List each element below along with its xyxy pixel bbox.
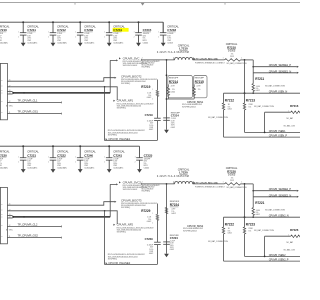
wire sense tap — [244, 59, 246, 94]
capacitor C7220 (clipped at left edge) — [0, 150, 10, 170]
svg-text:C0402: C0402 — [144, 167, 150, 169]
svg-text:xx: xx — [1, 101, 3, 103]
node CPUVR_SNS2 — [183, 224, 204, 232]
svg-text:C7239: C7239 — [84, 28, 93, 32]
inductor left fine print — [141, 62, 154, 68]
svg-text:CPUVR_SVC2: CPUVR_SVC2 — [123, 180, 142, 184]
svg-text:1: 1 — [223, 182, 224, 184]
wire CPUVR_ISEN_N — [224, 90, 301, 94]
svg-text:NO_BAT_CONNECTION: NO_BAT_CONNECTION — [254, 229, 275, 232]
capacitor C7241 — [104, 145, 125, 173]
wire CPUVR_SENSE2_P — [252, 184, 298, 197]
resistor R7216 (right edge, clipped) — [265, 104, 302, 133]
svg-text:NO_BAT: NO_BAT — [286, 241, 294, 244]
svg-text:SVCFREQ-SD04: SVCFREQ-SD04 — [183, 230, 197, 232]
resistor R7229 — [141, 204, 158, 225]
svg-text:C7222: C7222 — [57, 153, 66, 157]
svg-text:0402: 0402 — [256, 214, 260, 216]
svg-text:SVCFREQ: SVCFREQ — [117, 232, 127, 234]
svg-text:CPUVR_NP1: CPUVR_NP1 — [117, 99, 134, 103]
capacitor C7231 — [104, 21, 128, 46]
node CPUVR_BOOT3 — [121, 198, 158, 209]
ground — [164, 130, 169, 134]
svg-text:2512: 2512 — [230, 180, 234, 182]
node CPUVR_SVC2 — [119, 180, 160, 191]
svg-text:SVCFREQ: SVCFREQ — [141, 191, 150, 193]
svg-text:2512: 2512 — [230, 56, 234, 58]
svg-text:xx: xx — [1, 209, 3, 211]
svg-text:2: 2 — [152, 223, 153, 225]
svg-text:1: 1 — [134, 31, 135, 33]
svg-text:C7218: C7218 — [167, 28, 176, 32]
svg-text:xx: xx — [1, 236, 3, 238]
svg-text:2: 2 — [241, 182, 242, 184]
svg-text:2: 2 — [104, 36, 105, 38]
svg-text:NO_BAT: NO_BAT — [286, 117, 294, 120]
svg-text:NO_BAT_CONNECTION: NO_BAT_CONNECTION — [227, 62, 248, 65]
svg-text:0402: 0402 — [171, 127, 175, 129]
svg-text:PP_CPUVR_REG_SNS: PP_CPUVR_REG_SNS — [196, 59, 219, 61]
capacitor C7218 — [158, 22, 179, 46]
svg-text:NO_BAT_CON: NO_BAT_CON — [284, 125, 296, 128]
svg-text:C7210: C7210 — [0, 28, 7, 32]
svg-text:1: 1 — [223, 58, 224, 60]
svg-text:TP_CPUVR_GS1: TP_CPUVR_GS1 — [18, 110, 39, 114]
svg-text:1: 1 — [48, 156, 49, 158]
sheet border (top) — [0, 3, 300, 6]
resistor R7215 (restuff group) — [193, 76, 207, 100]
svg-text:NO_BAT_CONNECTION: NO_BAT_CONNECTION — [208, 240, 229, 243]
svg-text:R7215: R7215 — [195, 80, 204, 84]
resistor R7224 (restuff, on column) — [165, 201, 180, 215]
wire CPUVR_SENSE1_N — [253, 69, 299, 74]
svg-text:2: 2 — [75, 36, 76, 38]
svg-text:CPUVR_PHASE2: CPUVR_PHASE2 — [108, 261, 130, 265]
svg-text:SVI2-SVC-D0402: SVI2-SVC-D0402 — [123, 189, 139, 191]
svg-text:PP_CPUVR_REG_SNS: PP_CPUVR_REG_SNS — [196, 183, 219, 185]
svg-text:xx: xx — [1, 85, 3, 87]
svg-text:0402: 0402 — [170, 249, 174, 251]
wire power rail (top bypass row) — [0, 145, 140, 147]
resistor R7211 — [252, 73, 286, 94]
capacitor C7240 — [75, 145, 96, 173]
svg-text:CPUVR_BOOT3: CPUVR_BOOT3 — [121, 198, 142, 202]
capacitor C7221 — [18, 145, 39, 173]
svg-text:POWER/TO-TRISTATE-NO_CONNECT: POWER/TO-TRISTATE-NO_CONNECT — [195, 61, 226, 64]
wire SNS column — [166, 59, 168, 130]
svg-text:xx: xx — [1, 90, 3, 92]
svg-text:1: 1 — [152, 213, 153, 215]
capacitor C7214 (restuff) — [163, 113, 180, 129]
wire power rail (top bypass row) — [0, 21, 163, 23]
svg-text:2: 2 — [104, 161, 105, 163]
svg-text:CPUVR_ISEN2_P: CPUVR_ISEN2_P — [269, 258, 289, 262]
svg-text:SVCFREQ-SD04: SVCFREQ-SD04 — [182, 106, 196, 108]
svg-text:TP_CPUVR_CL2: TP_CPUVR_CL2 — [18, 222, 38, 226]
wire CPUVR_SENSE1_P — [252, 60, 298, 73]
svg-text:R7211: R7211 — [255, 77, 264, 81]
wire restuff bottoms — [167, 98, 195, 100]
capacitor C7215 — [134, 21, 152, 46]
svg-text:5%: 5% — [248, 106, 251, 108]
svg-text:xx: xx — [1, 214, 3, 216]
svg-text:TP_CPUVR_CL1: TP_CPUVR_CL1 — [18, 98, 38, 102]
svg-text:C7225: C7225 — [144, 153, 153, 157]
svg-text:L7210: L7210 — [179, 47, 188, 51]
wire sense tap — [244, 183, 246, 218]
svg-text:C7221: C7221 — [27, 153, 36, 157]
svg-text:SVCFREQ: SVCFREQ — [141, 67, 150, 69]
svg-text:CPUVR_BOOT2: CPUVR_BOOT2 — [121, 74, 142, 78]
svg-text:C7214: C7214 — [171, 114, 179, 118]
svg-text:R7219: R7219 — [141, 85, 150, 89]
svg-text:0402: 0402 — [149, 253, 153, 255]
capacitor C7210 (clipped at left edge) — [0, 25, 10, 45]
svg-text:xx: xx — [1, 112, 3, 114]
resistor R7220 (current sense) — [223, 166, 254, 189]
node CPUVR_NP2 — [113, 223, 154, 234]
svg-text:R7226: R7226 — [290, 228, 299, 232]
svg-text:NO_BAT_CONNECTION: NO_BAT_CONNECTION — [254, 105, 275, 108]
wire thick pair bus — [8, 91, 13, 93]
svg-text:CPUVR_ISEN1: CPUVR_ISEN1 — [269, 129, 286, 133]
svg-text:MNC: MNC — [9, 230, 14, 232]
no-connect marker — [6, 105, 14, 108]
svg-text:C0402-AEC: C0402-AEC — [0, 41, 9, 44]
svg-text:C0402-AEC: C0402-AEC — [57, 166, 68, 169]
capacitor C7229 — [145, 220, 161, 264]
svg-text:1: 1 — [104, 156, 105, 158]
wire CPUVR_SENSE2_N — [253, 193, 299, 198]
svg-text:xx: xx — [1, 80, 3, 82]
node CPUVR_SVC — [119, 56, 160, 67]
wire thick pair bus — [8, 215, 13, 217]
svg-text:2: 2 — [142, 182, 143, 184]
wire CPUVR_SVC riser — [110, 60, 116, 93]
svg-text:0.22UH-71A-0.9625OHM: 0.22UH-71A-0.9625OHM — [157, 51, 189, 54]
svg-text:1: 1 — [75, 31, 76, 33]
svg-text:CPUVR_SENSE2_P: CPUVR_SENSE2_P — [269, 187, 292, 191]
svg-text:CPUVR_SVC: CPUVR_SVC — [123, 56, 140, 60]
pin numbers — [9, 204, 11, 238]
svg-text:2: 2 — [134, 36, 135, 38]
test point TP_CPUVR_GS1 — [8, 110, 62, 115]
svg-text:xx: xx — [1, 225, 3, 227]
inductor L7210 — [141, 43, 224, 61]
svg-text:2: 2 — [18, 36, 19, 38]
wire CPUVR_PHASE1 routing — [105, 87, 158, 141]
resistor R7213 — [243, 93, 274, 132]
svg-text:TP_CPUVR_GS2: TP_CPUVR_GS2 — [18, 234, 39, 238]
svg-text:CPUVR_ISEN_N: CPUVR_ISEN_N — [269, 90, 288, 94]
svg-text:0402: 0402 — [228, 109, 232, 111]
capacitor C7239 — [75, 21, 96, 46]
node PP_CPUVR_REG_SNS — [194, 58, 226, 65]
node CPUVR_SNS1 — [182, 100, 204, 108]
svg-text:CPUVR_NP2: CPUVR_NP2 — [117, 223, 134, 227]
svg-text:CPUVR_SENSE2_N: CPUVR_SENSE2_N — [269, 193, 292, 197]
wire rail corner — [162, 22, 164, 32]
svg-text:POWER/TO-TRISTATE-NO_CONNECT: POWER/TO-TRISTATE-NO_CONNECT — [195, 185, 226, 188]
svg-text:C0402-AEC: C0402-AEC — [27, 41, 38, 44]
capacitor C7222 — [48, 145, 69, 173]
svg-text:SVCFREQ: SVCFREQ — [117, 108, 127, 110]
svg-text:C7224: C7224 — [170, 236, 178, 240]
svg-text:CPUVR_SENSE1_P: CPUVR_SENSE1_P — [269, 63, 292, 67]
svg-text:NO_BAT_CONNECTION: NO_BAT_CONNECTION — [208, 116, 229, 119]
ground — [164, 254, 169, 258]
svg-text:R7213: R7213 — [246, 98, 255, 102]
svg-text:1: 1 — [75, 156, 76, 158]
node CPUVR_BOOT2 — [121, 74, 158, 85]
node CPUVR_PHASE1 — [106, 130, 146, 141]
svg-text:2: 2 — [152, 99, 153, 101]
svg-text:C0402-AEC: C0402-AEC — [113, 166, 124, 169]
svg-text:CPUVR_PHASE1: CPUVR_PHASE1 — [108, 137, 130, 141]
inductor left fine print — [141, 186, 154, 192]
svg-text:0402: 0402 — [228, 233, 232, 235]
wire CPUVR_NP2 net — [8, 211, 118, 224]
capacitor C7224 (restuff) — [163, 235, 179, 251]
resistor R7219 — [141, 80, 158, 101]
svg-text:0.0005: 0.0005 — [228, 174, 236, 177]
pin numbers — [9, 80, 11, 114]
resistor R7226 (right edge, clipped) — [265, 228, 302, 257]
svg-text:R7229: R7229 — [141, 209, 150, 213]
resistor R7212 — [208, 93, 234, 137]
svg-text:C0402-AEC: C0402-AEC — [27, 166, 38, 169]
svg-text:2: 2 — [142, 58, 143, 60]
resistor R7222 — [208, 217, 234, 261]
test point TP_CPUVR_CL2 — [8, 222, 62, 227]
wire CPUVR_ISEN2 — [245, 253, 301, 257]
svg-text:NO_BAT_CON: NO_BAT_CON — [284, 249, 296, 252]
test point TP_CPUVR_CL1 — [8, 98, 62, 103]
svg-text:CPUVR_ISEN_P: CPUVR_ISEN_P — [269, 134, 288, 138]
svg-text:C7211: C7211 — [27, 28, 36, 32]
svg-text:SVCFREQ: SVCFREQ — [121, 207, 131, 209]
wire CPUVR_BOOT3 net — [8, 202, 115, 206]
svg-text:C0402-AEC: C0402-AEC — [57, 41, 68, 44]
capacitor C7225 — [135, 146, 153, 173]
no-connect marker — [6, 229, 14, 232]
wire CPUVR_BOOT2 net — [8, 78, 115, 82]
svg-text:2: 2 — [48, 161, 49, 163]
svg-text:CPUVR_SENSE1_N: CPUVR_SENSE1_N — [269, 69, 292, 73]
resistor R7210 (current sense) — [223, 42, 254, 65]
wire CPUVR_SVC2 riser — [110, 184, 116, 217]
resistor R7223 — [243, 217, 274, 256]
svg-text:xx: xx — [1, 204, 3, 206]
svg-text:2: 2 — [48, 36, 49, 38]
svg-text:C0402-AEC: C0402-AEC — [113, 41, 124, 44]
test point TP_CPUVR_GS2 — [8, 234, 62, 239]
svg-text:0.22UH-71A-0.9625OHM: 0.22UH-71A-0.9625OHM — [157, 175, 189, 178]
svg-text:1%: 1% — [198, 89, 201, 91]
svg-text:C7240: C7240 — [84, 153, 93, 157]
svg-text:C7229: C7229 — [145, 237, 153, 241]
resistor R7214 (restuff group) — [167, 76, 192, 100]
svg-text:C7215: C7215 — [143, 28, 152, 32]
connector (left edge, clipped) — [0, 187, 7, 243]
resistor R7221 — [252, 197, 286, 218]
wire SNS column — [166, 183, 168, 254]
capacitor C7219 — [145, 96, 161, 140]
wire CPUVR_PHASE2 routing — [105, 211, 158, 265]
svg-text:CPUVR_ISEN2: CPUVR_ISEN2 — [269, 253, 286, 257]
svg-text:2: 2 — [135, 161, 136, 163]
svg-text:C7241: C7241 — [113, 153, 122, 157]
svg-text:C0402-AEC: C0402-AEC — [84, 166, 95, 169]
svg-text:SVCFREQ: SVCFREQ — [121, 83, 131, 85]
wire CPUVR_ISEN2_N — [224, 214, 301, 218]
svg-text:2: 2 — [158, 36, 159, 38]
svg-text:0.0005: 0.0005 — [228, 50, 236, 53]
svg-text:1: 1 — [152, 89, 153, 91]
svg-text:1: 1 — [135, 156, 136, 158]
capacitor C7211 — [18, 21, 39, 46]
svg-text:2: 2 — [18, 161, 19, 163]
wire CPUVR_ISEN1 — [245, 129, 301, 133]
svg-text:1: 1 — [48, 31, 49, 33]
svg-text:R7221: R7221 — [255, 201, 264, 205]
connector (left edge, clipped) — [0, 63, 7, 119]
svg-text:CPUVR_ISEN2_N: CPUVR_ISEN2_N — [269, 214, 289, 218]
svg-text:C0402-AEC: C0402-AEC — [0, 166, 9, 169]
svg-text:R7224: R7224 — [170, 203, 179, 207]
svg-text:MNC: MNC — [9, 106, 14, 108]
svg-text:R7212: R7212 — [225, 98, 234, 102]
svg-text:1%: 1% — [172, 89, 175, 91]
svg-text:R7223: R7223 — [246, 222, 255, 226]
svg-text:C7231: C7231 — [113, 28, 122, 32]
svg-text:1: 1 — [18, 156, 19, 158]
svg-text:0402: 0402 — [149, 129, 153, 131]
wire CPUVR_ISEN_P — [224, 134, 301, 138]
svg-text:xx: xx — [1, 93, 3, 95]
svg-text:NO_BAT_CONNECTION: NO_BAT_CONNECTION — [265, 85, 286, 88]
svg-text:2: 2 — [75, 161, 76, 163]
svg-text:C7212: C7212 — [57, 28, 66, 32]
svg-text:SVI2-SVC-D0402: SVI2-SVC-D0402 — [123, 65, 139, 67]
svg-text:C0402: C0402 — [143, 42, 149, 44]
svg-text:C7219: C7219 — [145, 113, 153, 117]
svg-text:NO_BAT_CONNECTION: NO_BAT_CONNECTION — [227, 186, 248, 189]
svg-text:R7222: R7222 — [225, 222, 234, 226]
svg-text:0402: 0402 — [256, 90, 260, 92]
svg-text:L7220: L7220 — [179, 171, 188, 175]
svg-text:1: 1 — [158, 31, 159, 33]
inductor L7220 — [141, 167, 224, 185]
svg-text:R7216: R7216 — [290, 104, 299, 108]
node CPUVR_NP1 — [113, 99, 154, 110]
svg-text:5%: 5% — [248, 230, 251, 232]
svg-text:1: 1 — [104, 31, 105, 33]
svg-text:R7214: R7214 — [169, 80, 178, 84]
wire CPUVR_NP1 net — [8, 87, 118, 100]
capacitor C7212 — [48, 21, 69, 46]
svg-text:xx: xx — [1, 217, 3, 219]
svg-text:2: 2 — [241, 58, 242, 60]
svg-text:C0603: C0603 — [167, 42, 173, 44]
node PP_CPUVR_REG_SNS — [194, 182, 226, 189]
wire CPUVR_ISEN2_P — [224, 258, 301, 262]
svg-text:C7220: C7220 — [0, 153, 7, 157]
svg-text:NO_BAT_CONNECTION: NO_BAT_CONNECTION — [265, 209, 286, 212]
svg-text:1: 1 — [18, 31, 19, 33]
svg-text:C0402-AEC: C0402-AEC — [84, 41, 95, 44]
node CPUVR_PHASE2 — [106, 254, 146, 265]
